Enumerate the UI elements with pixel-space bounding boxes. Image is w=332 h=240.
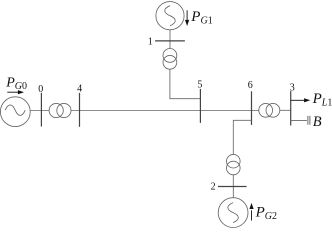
arrow P_L1	[291, 98, 311, 102]
wire T15 to bus 5	[170, 69, 201, 99]
svg-text:4: 4	[77, 84, 82, 95]
bus 3	[290, 91, 292, 125]
arrow P_G1	[185, 10, 189, 26]
bus 2	[218, 186, 247, 188]
svg-text:5: 5	[197, 80, 202, 91]
svg-text:2: 2	[211, 182, 216, 193]
wire G1 to transformer T15	[169, 30, 171, 49]
capacitor B plates	[308, 116, 310, 125]
bus 5	[199, 89, 201, 123]
svg-text:B: B	[313, 114, 322, 130]
wire T04 to bus 4 and main line to T63	[71, 110, 259, 112]
wire bus 3 to capacitor B	[291, 119, 307, 121]
svg-text:1: 1	[148, 36, 153, 47]
wire T26 to generator G2	[232, 175, 234, 198]
arrow P_G2	[249, 203, 253, 221]
wire bus 6 to transformer T26	[233, 120, 251, 154]
transformer T63	[259, 103, 280, 117]
svg-text:6: 6	[248, 80, 253, 91]
svg-text:0: 0	[38, 84, 43, 95]
bus 4	[79, 93, 81, 127]
bus 1	[155, 40, 185, 42]
transformer T04	[49, 103, 71, 117]
generator G0	[0, 97, 30, 127]
transformer T26	[227, 154, 241, 174]
generator G1	[156, 2, 184, 30]
arrow P_G0	[7, 90, 24, 94]
wire T63 to bus 3	[280, 109, 291, 111]
bus 0	[40, 93, 42, 127]
wire G0 to bus 0	[30, 110, 49, 112]
bus 6	[251, 91, 253, 125]
svg-text:3: 3	[290, 83, 295, 94]
transformer T15	[163, 49, 177, 70]
generator G2	[218, 198, 248, 228]
